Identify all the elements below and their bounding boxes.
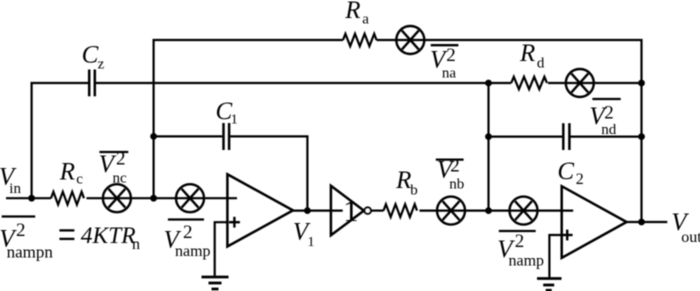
svg-text:R: R	[344, 0, 360, 24]
svg-text:2: 2	[446, 45, 456, 66]
svg-text:4KTR: 4KTR	[81, 223, 136, 249]
svg-text:2: 2	[183, 222, 193, 243]
svg-text:z: z	[98, 57, 105, 73]
svg-text:nc: nc	[113, 170, 128, 186]
svg-text:1: 1	[343, 193, 359, 228]
svg-text:2: 2	[604, 103, 614, 124]
svg-text:1: 1	[308, 235, 315, 250]
svg-text:2: 2	[116, 148, 126, 169]
svg-text:R: R	[395, 167, 411, 194]
svg-text:nampn: nampn	[7, 242, 54, 261]
svg-text:R: R	[59, 159, 75, 186]
svg-text:namp: namp	[509, 253, 545, 270]
svg-text:namp: namp	[175, 243, 211, 260]
svg-text:2: 2	[450, 156, 460, 177]
svg-text:out: out	[681, 229, 700, 246]
svg-text:nb: nb	[449, 176, 464, 192]
svg-text:d: d	[537, 55, 545, 71]
svg-text:n: n	[132, 236, 140, 253]
svg-text:C: C	[82, 41, 99, 68]
svg-text:R: R	[519, 40, 535, 67]
svg-text:b: b	[410, 182, 418, 198]
svg-text:C: C	[557, 158, 574, 185]
svg-text:c: c	[76, 172, 83, 188]
svg-text:na: na	[442, 66, 457, 82]
svg-text:a: a	[362, 12, 369, 28]
svg-text:1: 1	[231, 113, 238, 128]
svg-text:2: 2	[515, 231, 525, 252]
svg-text:2: 2	[16, 220, 26, 241]
svg-text:nd: nd	[601, 122, 617, 138]
svg-text:in: in	[9, 181, 21, 197]
svg-text:2: 2	[576, 171, 584, 188]
